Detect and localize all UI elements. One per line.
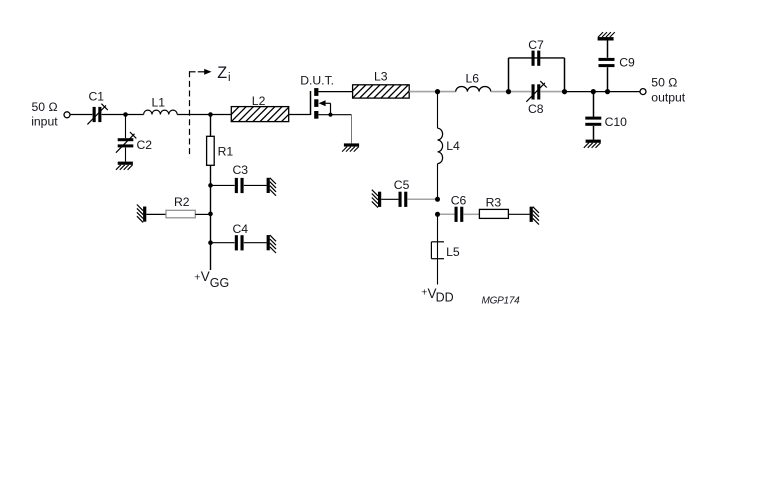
svg-text:L5: L5 (446, 245, 460, 259)
svg-text:C1: C1 (89, 90, 105, 104)
svg-text:C5: C5 (394, 178, 410, 192)
svg-text:MGP174: MGP174 (482, 295, 521, 306)
svg-text:50 Ω: 50 Ω (651, 76, 677, 90)
svg-text:L2: L2 (252, 94, 266, 108)
svg-text:C2: C2 (137, 138, 153, 152)
svg-text:C8: C8 (528, 102, 544, 116)
svg-text:+: + (194, 272, 200, 284)
svg-text:DD: DD (436, 290, 454, 304)
svg-text:L3: L3 (374, 70, 388, 84)
svg-text:C3: C3 (233, 163, 249, 177)
svg-text:Z: Z (217, 64, 227, 82)
svg-text:V: V (201, 269, 210, 284)
svg-text:50 Ω: 50 Ω (32, 100, 58, 114)
svg-text:C4: C4 (233, 222, 249, 236)
svg-text:i: i (228, 72, 231, 84)
svg-text:L1: L1 (152, 96, 166, 110)
svg-text:C7: C7 (528, 38, 544, 52)
svg-text:input: input (31, 115, 58, 129)
svg-text:output: output (651, 90, 685, 104)
svg-text:C10: C10 (605, 115, 628, 129)
svg-text:R3: R3 (486, 196, 502, 210)
svg-text:L6: L6 (466, 71, 480, 85)
svg-text:R1: R1 (218, 145, 234, 159)
svg-text:L4: L4 (446, 139, 460, 153)
svg-text:C6: C6 (451, 194, 467, 208)
svg-text:R2: R2 (174, 195, 190, 209)
svg-text:C9: C9 (619, 56, 635, 70)
svg-text:D.U.T.: D.U.T. (300, 74, 334, 88)
svg-text:GG: GG (210, 276, 229, 290)
